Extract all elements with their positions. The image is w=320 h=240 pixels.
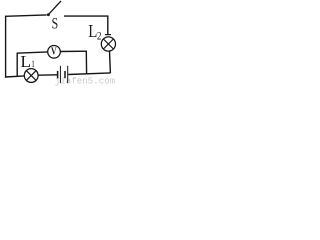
svg-text:2: 2 xyxy=(97,31,102,43)
svg-text:V: V xyxy=(51,46,57,57)
svg-text:jiafen5.com: jiafen5.com xyxy=(55,77,116,87)
svg-text:S: S xyxy=(52,16,59,33)
svg-text:L: L xyxy=(88,22,97,41)
svg-text:L: L xyxy=(20,52,31,71)
svg-text:1: 1 xyxy=(31,59,35,69)
